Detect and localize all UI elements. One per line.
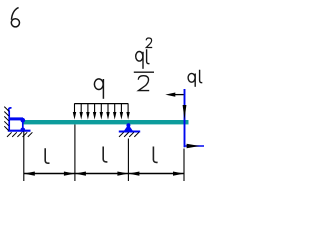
roller pin <box>126 123 130 127</box>
dimension arrows <box>24 172 184 176</box>
extension line 2 (load start) <box>74 125 76 182</box>
moment couple top arrow (left) <box>174 94 184 96</box>
extension line 1 (left support) <box>23 132 25 182</box>
beam <box>23 120 189 124</box>
dimension label l (span 2) <box>103 147 107 162</box>
fixed pin support (left wall) <box>8 108 31 131</box>
moment label ql^2/2 : q <box>136 49 150 69</box>
roller bottom bar <box>119 131 140 133</box>
force ql vertical line <box>184 89 186 147</box>
dimension label l (span 1) <box>45 148 49 163</box>
support bottom bar <box>8 130 31 132</box>
ground hatching under roller support <box>119 132 139 137</box>
wall vertical line <box>8 111 10 132</box>
roller triangle <box>124 125 133 131</box>
support pin bottom <box>21 128 26 133</box>
distributed load arrows <box>73 104 130 120</box>
dimension line <box>24 173 184 175</box>
wall hatching <box>4 107 8 131</box>
moment label superscript 2 <box>146 38 152 48</box>
moment label fraction bar <box>134 71 154 73</box>
ground hatching under left support <box>7 132 32 137</box>
label q (distributed load) <box>94 79 103 99</box>
moment label denominator 2 <box>138 76 149 91</box>
force ql arrowhead (down onto beam) <box>183 105 187 120</box>
extension line 3 (roller support) <box>127 139 129 182</box>
dimension label l (span 3) <box>153 147 157 163</box>
moment couple bottom arrow (right) <box>185 145 204 147</box>
roller support (middle) <box>119 123 140 131</box>
support top bar <box>9 117 23 120</box>
wall top hook <box>9 108 12 112</box>
support right post <box>22 119 24 131</box>
figure number 6 <box>11 8 19 27</box>
support pin top <box>21 118 26 123</box>
distributed load q : top line <box>74 103 128 105</box>
extension line 4 (beam end) <box>183 149 185 182</box>
moment label l <box>147 49 150 63</box>
force label ql <box>188 70 202 87</box>
